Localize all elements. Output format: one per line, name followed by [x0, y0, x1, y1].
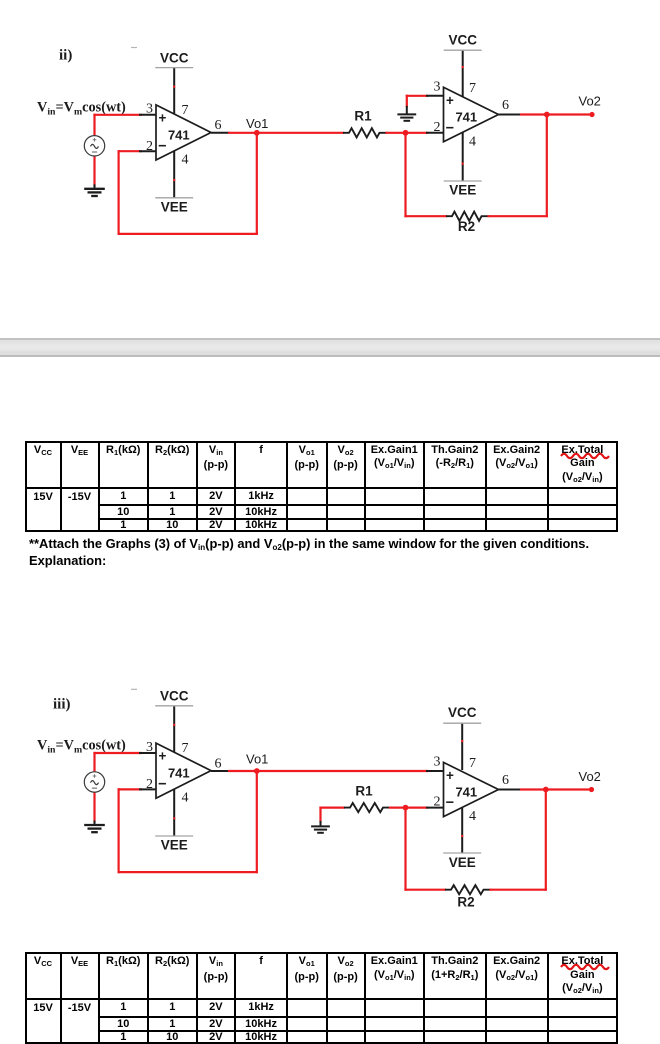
svg-text:R1: R1: [355, 784, 373, 799]
wire down to ground: [319, 808, 321, 822]
wire feedback to pin 2: [119, 788, 141, 790]
node red tick on VEE2-iii wire: [461, 835, 463, 837]
svg-text:+: +: [158, 111, 166, 126]
VEE1-iii rail bar: [155, 835, 193, 837]
measurement table 1: [25, 441, 619, 533]
wire Vo1 net: [229, 132, 343, 134]
wire VCC1-ii supply: [173, 68, 175, 116]
wire source to ground: [93, 792, 95, 822]
node red tick on VEE1-ii wire: [173, 179, 175, 181]
ground G1-iii: [84, 821, 105, 833]
wire pin 3 stub: [139, 752, 156, 754]
wire R1 to pin 2: [387, 132, 428, 134]
wire feedback bottom: [119, 233, 257, 235]
wire source to ground: [93, 156, 95, 186]
ground G2-iii: [311, 821, 330, 833]
node inverting input junction: [403, 130, 409, 136]
resistor R2-ii: [446, 212, 490, 234]
svg-text:R2: R2: [458, 219, 475, 234]
wire feedback to R2: [406, 215, 447, 217]
wire pin 6 stub: [211, 132, 230, 134]
svg-text:2: 2: [434, 120, 441, 135]
node red tick on VCC2-iii wire: [461, 740, 463, 742]
svg-text:741: 741: [455, 784, 477, 799]
wire pin 3 to ground corner: [407, 95, 428, 97]
artifact dash: [131, 47, 137, 49]
wire R2 to output corner iii: [491, 889, 546, 891]
node red tick on VEE1-iii wire: [173, 817, 175, 819]
wire feedback down U2: [404, 133, 406, 216]
VCC2-ii rail bar: [444, 49, 482, 51]
wire pin 2 stub: [139, 788, 156, 790]
wire feedback bottom: [119, 871, 257, 873]
wire pin 6 stub U4: [499, 789, 523, 791]
wire pin 2 stub U2: [426, 132, 444, 134]
wire VCC1-iii supply: [173, 706, 175, 754]
wire R2 to output corner: [489, 215, 547, 217]
VEE2-ii rail bar: [444, 180, 482, 182]
node Vo1: [254, 130, 260, 136]
resistor R2-iii: [445, 885, 492, 909]
svg-text:7: 7: [182, 741, 189, 756]
svg-text:+: +: [446, 93, 454, 108]
svg-text:Vo2: Vo2: [579, 94, 601, 109]
svg-text:7: 7: [469, 756, 476, 771]
wire VEE2-ii supply: [462, 132, 464, 181]
svg-text:VCC: VCC: [160, 689, 189, 704]
svg-text:Vo1: Vo1: [246, 116, 268, 131]
svg-text:R1: R1: [354, 109, 372, 124]
node feedback junction iii: [543, 787, 549, 793]
wire source to input corner: [93, 753, 95, 772]
wire feedback up: [117, 789, 119, 872]
svg-text:6: 6: [215, 756, 222, 771]
wire VEE2-iii supply: [461, 808, 463, 853]
VEE1-ii rail bar: [155, 197, 193, 199]
VCC2-iii rail bar: [443, 722, 481, 724]
wire feedback down: [256, 771, 258, 872]
wire feedback up to output iii: [545, 790, 547, 890]
wire pin 6 stub U2: [499, 114, 523, 116]
instruction text: [29, 536, 589, 552]
wire pin 3 stub: [139, 114, 156, 116]
svg-text:6: 6: [502, 98, 509, 113]
node red tick on VCC1-iii wire: [173, 724, 175, 726]
svg-text:VCC: VCC: [160, 51, 189, 66]
svg-text:3: 3: [146, 740, 153, 755]
svg-text:+: +: [158, 749, 166, 764]
op-amp U1-ii: [156, 105, 211, 160]
svg-text:741: 741: [168, 765, 190, 780]
node red tick on VCC2-ii wire: [462, 66, 464, 68]
wire pin 2 stub U4: [426, 807, 444, 809]
svg-text:4: 4: [469, 134, 476, 149]
svg-text:3: 3: [146, 102, 153, 117]
svg-text:−: −: [158, 777, 166, 793]
wire pin 3 stub U4: [426, 770, 444, 772]
svg-text:4: 4: [469, 809, 476, 824]
svg-text:6: 6: [502, 773, 509, 788]
resistor R1-iii: [344, 784, 391, 813]
svg-text:2: 2: [434, 795, 441, 810]
svg-text:iii): iii): [53, 697, 71, 713]
node inverting input junction iii: [403, 805, 409, 811]
wire VEE1-ii supply: [173, 149, 175, 198]
svg-text:741: 741: [168, 127, 190, 142]
svg-text:2: 2: [146, 777, 153, 792]
artifact dash: [131, 688, 137, 690]
ground G1-ii: [84, 184, 105, 196]
wire feedback up to output: [546, 115, 548, 217]
svg-text:6: 6: [215, 118, 222, 133]
wire feedback to R2 iii: [406, 889, 446, 891]
svg-text:3: 3: [434, 80, 441, 95]
node Vo1: [254, 768, 260, 774]
svg-text:Vo1: Vo1: [246, 752, 268, 767]
VEE2-iii rail bar: [443, 852, 481, 854]
wire feedback to pin 2: [119, 150, 141, 152]
wire pin 3 stub U2: [426, 95, 444, 97]
svg-text:7: 7: [469, 81, 476, 96]
wire feedback down: [256, 133, 258, 234]
op-amp U2-iii: [444, 762, 499, 816]
svg-text:ii): ii): [59, 48, 72, 64]
svg-text:R2: R2: [457, 895, 474, 910]
wire VEE1-iii supply: [173, 787, 175, 836]
svg-text:Vo2: Vo2: [579, 769, 601, 784]
wire down to ground: [406, 96, 408, 106]
svg-text:4: 4: [182, 791, 189, 806]
svg-text:VEE: VEE: [449, 855, 476, 870]
AC source V1-ii: [84, 136, 104, 156]
node red tick on VCC1-ii wire: [173, 86, 175, 88]
svg-text:4: 4: [182, 153, 189, 168]
svg-text:VCC: VCC: [448, 33, 477, 48]
svg-text:−: −: [158, 139, 166, 155]
svg-text:VEE: VEE: [161, 838, 188, 853]
ground G2-ii: [397, 106, 416, 121]
svg-text:−: −: [446, 120, 454, 136]
svg-text:−: −: [446, 795, 454, 811]
svg-text:VEE: VEE: [449, 183, 476, 198]
op-amp U2-ii: [444, 87, 499, 142]
svg-text:+: +: [446, 768, 454, 783]
svg-text:VEE: VEE: [161, 200, 188, 215]
node Vo2 end iii: [589, 787, 594, 792]
svg-text:7: 7: [182, 103, 189, 118]
resistor R1-ii: [343, 109, 388, 138]
wire input to pin 3: [95, 114, 142, 116]
wire Vo1 net: [229, 770, 428, 772]
wire pin 2 stub: [139, 150, 156, 152]
op-amp U1-iii: [156, 743, 211, 798]
VCC1-iii rail bar: [155, 705, 193, 707]
wire ground corner to R1: [321, 806, 345, 808]
wire Vo2 iii: [521, 788, 592, 790]
node red tick on VEE2-ii wire: [462, 163, 464, 165]
wire R1 to pin 2: [390, 806, 428, 808]
spellcheck squiggle under Ex.Total (table 1): [560, 451, 610, 461]
svg-text:VCC: VCC: [448, 705, 477, 720]
wire feedback down U4: [404, 808, 406, 890]
wire VCC2-ii supply: [462, 50, 464, 98]
page divider band: [0, 338, 660, 357]
svg-text:3: 3: [434, 755, 441, 770]
svg-text:741: 741: [455, 109, 477, 124]
wire VCC2-iii supply: [461, 723, 463, 770]
spellcheck squiggle under Ex.Total (table 2): [560, 962, 610, 972]
AC source V1-iii: [84, 772, 104, 792]
measurement table 2: [25, 952, 619, 1044]
node Vo2 end: [589, 112, 594, 117]
wire source to input corner: [93, 115, 95, 136]
svg-text:2: 2: [146, 139, 153, 154]
wire pin 6 stub: [211, 770, 230, 772]
wire input to pin 3: [95, 752, 142, 754]
VCC1-ii rail bar: [155, 67, 193, 69]
wire feedback up: [117, 151, 119, 234]
wire Vo2: [521, 113, 592, 115]
node feedback junction: [544, 112, 550, 118]
